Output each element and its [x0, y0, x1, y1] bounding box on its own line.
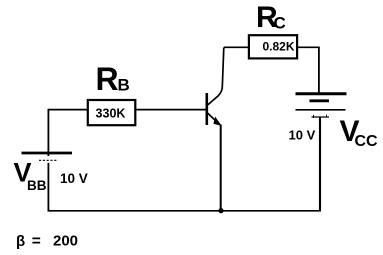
- svg-text:=: =: [32, 233, 41, 250]
- svg-text:0.82K: 0.82K: [262, 40, 294, 54]
- svg-text:β: β: [16, 233, 25, 250]
- svg-text:330K: 330K: [96, 107, 126, 121]
- svg-text:BB: BB: [27, 178, 47, 193]
- svg-text:C: C: [274, 13, 286, 32]
- svg-text:B: B: [118, 76, 130, 95]
- svg-text:10 V: 10 V: [60, 171, 88, 186]
- svg-text:CC: CC: [355, 133, 379, 150]
- svg-text:R: R: [96, 61, 119, 97]
- svg-text:200: 200: [53, 233, 78, 250]
- svg-text:10 V: 10 V: [289, 128, 316, 143]
